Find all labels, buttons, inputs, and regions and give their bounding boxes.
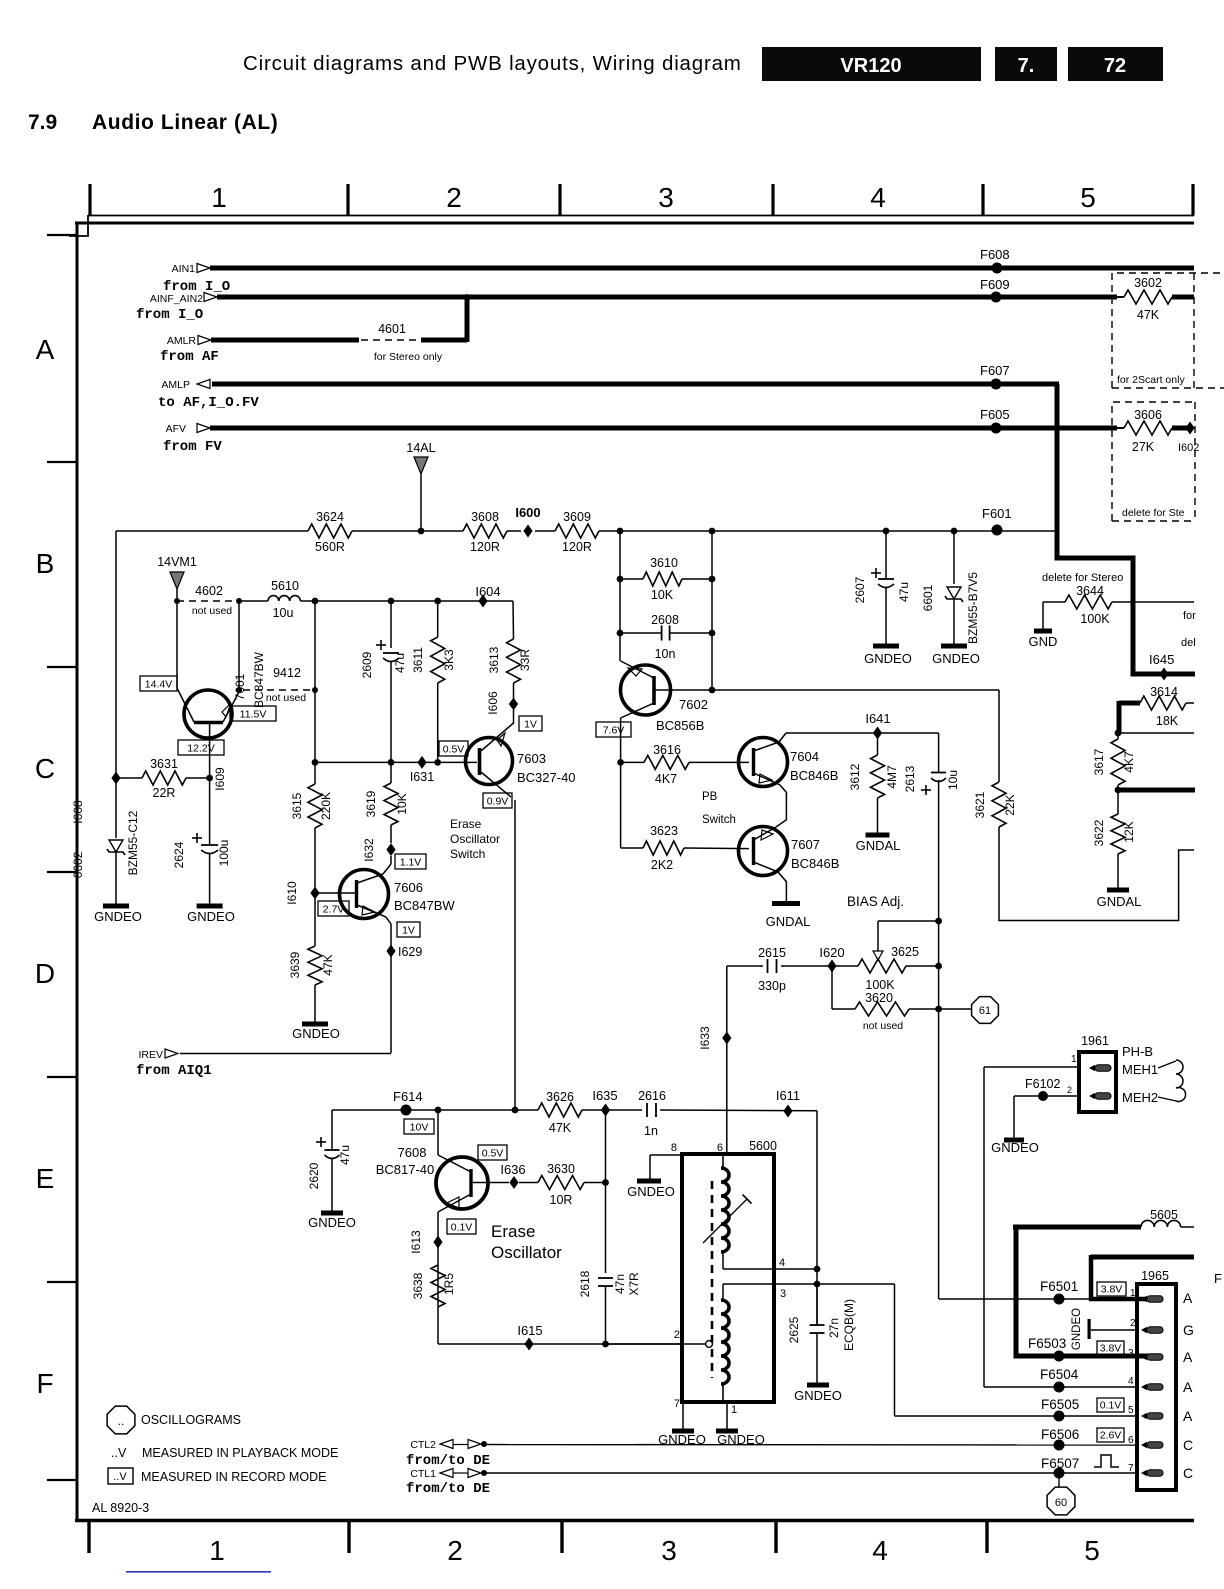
svg-text:3622: 3622 [1092,819,1106,846]
svg-text:2620: 2620 [307,1162,321,1189]
svg-text:3608: 3608 [471,510,499,524]
svg-text:7.9: 7.9 [28,111,57,134]
svg-text:3602: 3602 [1134,276,1162,290]
ground GNDEO (2620) [321,1211,343,1216]
oscillogram 61 [972,997,999,1024]
svg-text:14AL: 14AL [406,441,435,455]
wire thick 5605 bus to pin3 [1013,1225,1141,1230]
svg-text:OSCILLOGRAMS: OSCILLOGRAMS [141,1413,241,1427]
svg-text:from AIQ1: from AIQ1 [136,1063,212,1079]
junction 7602 column [617,528,624,535]
frame left border [76,223,79,1521]
resistor 3621 22K [992,782,1006,827]
voltage 0.1V (pin5) [1097,1398,1124,1412]
svg-text:27n: 27n [827,1318,841,1338]
svg-text:3609: 3609 [563,510,591,524]
svg-text:3615: 3615 [290,792,304,819]
svg-text:4K7: 4K7 [655,772,677,786]
transformer pin1 ground [726,1402,728,1429]
svg-text:3623: 3623 [650,824,678,838]
svg-text:0.5V: 0.5V [443,743,465,755]
svg-text:I641: I641 [865,711,890,726]
wire 7601 collector column [176,601,178,688]
node I609 [206,775,213,782]
wire 7603 base line [315,761,477,763]
transistor 7603 BC327-40 [466,738,513,785]
transistor 7608 BC817-40 [436,1157,488,1209]
svg-text:3610: 3610 [650,556,678,570]
svg-text:I629: I629 [398,945,422,959]
svg-text:I633: I633 [698,1026,712,1050]
svg-text:F6501: F6501 [1040,1279,1078,1294]
svg-text:F608: F608 [980,247,1010,262]
wire F6505 line [895,1415,1138,1417]
svg-text:61: 61 [979,1005,991,1017]
wire AMLR stereo link [421,338,467,343]
bottom ruler ticks [87,1521,90,1553]
svg-text:33R: 33R [518,649,532,671]
svg-text:3624: 3624 [316,510,344,524]
wire I633 column to transformer pin6 [726,966,728,1152]
junction 3617 top [1115,730,1122,737]
svg-text:A: A [1183,1408,1193,1424]
svg-text:from I_O: from I_O [136,307,203,323]
svg-text:14.4V: 14.4V [145,678,172,690]
svg-text:I606: I606 [486,691,500,715]
wire I615 line [438,1343,682,1345]
pulse symbol (pin7) [1094,1455,1119,1467]
svg-text:47K: 47K [1137,308,1160,322]
svg-text:F6503: F6503 [1028,1336,1066,1351]
svg-text:4: 4 [872,1535,888,1566]
port AIN1 arrow [197,264,210,273]
svg-text:I610: I610 [285,881,299,905]
svg-text:GNDEO: GNDEO [932,651,980,666]
legend record mode [108,1468,133,1484]
svg-text:from FV: from FV [163,439,222,455]
svg-text:1: 1 [731,1404,737,1416]
node I613 [433,1236,442,1249]
svg-text:for: for [1183,610,1196,622]
junction 3611 bottom [434,759,441,766]
svg-text:5600: 5600 [749,1139,777,1153]
voltage 0.9V (7603) [483,793,512,808]
capacitor 2613 10u electrolytic [938,733,940,772]
svg-text:4: 4 [870,182,886,213]
resistor 3615 220K [308,784,322,828]
connector 1961 pin2 [1089,1093,1095,1099]
svg-text:1R5: 1R5 [442,1273,456,1295]
transistor 7601 BC847BW [184,690,232,738]
svg-text:GNDEO: GNDEO [94,909,142,924]
svg-text:2624: 2624 [172,841,186,868]
svg-text:Switch: Switch [450,847,485,861]
svg-text:3611: 3611 [411,647,425,673]
svg-text:PH-B: PH-B [1122,1044,1153,1059]
svg-text:100K: 100K [865,978,895,992]
svg-text:I604: I604 [475,584,500,599]
wire I611 corner down to transformer pin4 [816,1111,818,1325]
wire 2609 column [390,601,392,648]
transformer primary winding [722,1156,724,1168]
voltage 0.1V (7608) [447,1219,476,1234]
wire I632 to 7606 collector [390,856,392,864]
svg-text:3.8V: 3.8V [1101,1283,1123,1295]
svg-text:2609: 2609 [360,651,374,678]
wire AIN1 bus [210,266,1194,271]
svg-text:G: G [1183,1322,1194,1338]
svg-text:10K: 10K [651,588,674,602]
junction 3610 left [617,576,624,583]
svg-text:..V: ..V [111,1446,127,1460]
svg-text:CTL1: CTL1 [410,1468,436,1480]
wire 7602 base to x712 [655,689,712,691]
resistor 3617 4K7 [1111,739,1125,785]
option box delete for Stereo (dashed) [1112,402,1195,521]
frame top border [75,222,1194,225]
svg-text:7608: 7608 [398,1145,427,1160]
svg-text:2608: 2608 [651,613,679,627]
wire supply rail y531 [116,530,308,532]
svg-text:I635: I635 [592,1088,617,1103]
svg-text:3617: 3617 [1092,748,1106,775]
ground GNDEO (3639) [302,1022,328,1027]
transistor 7602 BC856B [621,665,671,715]
junction 6601 column [951,528,958,535]
svg-text:1961: 1961 [1081,1034,1109,1048]
svg-text:100u: 100u [217,840,231,867]
node I602 [1185,422,1194,435]
svg-text:AMLP: AMLP [161,379,190,391]
coil 5610 10u [239,600,268,602]
svg-text:2615: 2615 [758,946,786,960]
svg-text:330p: 330p [758,979,786,993]
svg-text:A: A [1183,1379,1193,1395]
svg-text:C: C [35,753,55,784]
svg-text:I631: I631 [410,770,434,784]
svg-text:2: 2 [674,1329,680,1341]
voltage 1V (7606) [397,922,420,937]
svg-text:BC846B: BC846B [790,768,838,783]
wire 7601 base column [209,722,211,844]
resistor 3612 4M7 [877,739,879,755]
voltage 1.1V [395,854,426,869]
wire 7604 collector to I641 [779,733,786,742]
svg-text:4602: 4602 [195,584,223,598]
svg-text:10u: 10u [273,606,294,620]
svg-text:4M7: 4M7 [885,765,899,789]
svg-text:3639: 3639 [288,951,302,978]
ground GNDEO (2607) [873,644,899,649]
svg-text:not used: not used [863,1020,903,1032]
svg-text:2616: 2616 [638,1089,666,1103]
svg-text:not used: not used [266,692,306,704]
ground GND (3644) [1042,602,1044,629]
svg-text:60: 60 [1055,1497,1067,1509]
svg-text:3613: 3613 [487,646,501,673]
erase head coil [1176,1060,1186,1102]
svg-text:22R: 22R [153,786,176,800]
svg-text:BZM55-C12: BZM55-C12 [126,810,140,875]
wire thick y790 [1118,788,1195,793]
svg-text:1965: 1965 [1141,1269,1169,1283]
wire left loop column [115,531,117,838]
blue underline mark [126,1571,271,1573]
svg-text:GNDAL: GNDAL [766,914,811,929]
wire 3614 left thick link [1119,701,1140,706]
wire 7608 base to I636 [471,1182,509,1184]
zener 6602 BZM55-C12 [109,840,123,852]
svg-text:72: 72 [1104,55,1126,77]
junction 3611 top [434,598,441,605]
svg-text:12.2V: 12.2V [187,742,214,754]
wire 7606 emitter down [386,917,391,924]
svg-text:MEH1: MEH1 [1122,1062,1158,1077]
wire pin3 line [774,1283,895,1285]
wire AMLP bus vertical [1055,384,1060,558]
svg-text:1: 1 [1071,1054,1077,1065]
svg-text:10V: 10V [410,1121,429,1133]
voltage 2.6V (pin6) [1097,1428,1124,1442]
node I631 [417,756,426,769]
svg-text:Erase: Erase [491,1222,535,1241]
svg-text:8: 8 [671,1142,677,1154]
svg-text:E: E [36,1163,55,1194]
wire 7606 base [315,892,356,894]
wire 7604 emitter to 7607 collector [776,785,786,827]
node I608 [111,772,120,785]
capacitor 2609 47u electrolytic [376,644,386,646]
svg-text:F: F [1214,1271,1222,1286]
svg-text:5: 5 [1128,1405,1134,1416]
svg-text:I615: I615 [517,1323,542,1338]
junction 3616 [617,759,624,766]
svg-text:not used: not used [192,605,232,617]
svg-text:I609: I609 [213,767,227,791]
wire y733 [1118,732,1194,734]
svg-text:Oscillator: Oscillator [450,832,500,846]
svg-text:ECQB(M): ECQB(M) [842,1299,856,1351]
voltage 7.6V [596,722,631,737]
legend oscillogram octagon [107,1406,135,1434]
capacitor 2607 47u electrolytic [885,531,887,578]
wire F6504 line [984,1386,1137,1388]
svg-text:F6504: F6504 [1040,1367,1079,1382]
svg-text:F601: F601 [982,506,1012,521]
svg-text:7607: 7607 [791,837,820,852]
svg-text:BC847BW: BC847BW [252,651,266,708]
wire AFV bus [210,426,1117,431]
svg-text:2607: 2607 [853,576,867,603]
svg-text:7: 7 [674,1398,680,1410]
svg-text:220K: 220K [319,792,333,820]
junction base line 3615 [312,759,319,766]
svg-text:10u: 10u [946,770,960,790]
ruler left step [69,215,88,236]
svg-text:10n: 10n [655,647,676,661]
svg-text:I600: I600 [515,505,540,520]
svg-text:I645: I645 [1149,652,1174,667]
svg-text:Audio Linear (AL): Audio Linear (AL) [92,111,278,134]
ground GNDEO (2624) [197,904,223,909]
transformer secondary winding [721,1300,729,1384]
svg-text:I602: I602 [1178,442,1199,454]
svg-text:47u: 47u [338,1145,352,1165]
junction erase switch feed [512,1107,519,1114]
svg-text:18K: 18K [1156,714,1179,728]
svg-text:11.5V: 11.5V [240,708,267,720]
svg-text:560R: 560R [315,540,345,554]
wire 3615 column [314,601,316,784]
svg-text:1: 1 [211,182,227,213]
svg-text:2: 2 [446,182,462,213]
svg-text:GNDEO: GNDEO [292,1026,340,1041]
voltage 3.8V (pin1) [1097,1282,1126,1296]
voltage 0.5V (7603) [439,741,468,756]
svg-text:5: 5 [1084,1535,1100,1566]
svg-text:from/to DE: from/to DE [406,1481,490,1497]
svg-text:for 2Scart only: for 2Scart only [1117,374,1185,386]
svg-text:2.7V: 2.7V [323,903,345,915]
wire IREV line [180,1053,391,1055]
resistor 3622 12K [1117,790,1119,814]
svg-text:6602: 6602 [71,851,85,878]
wire F6501 line [939,1298,1091,1300]
svg-text:B: B [36,548,55,579]
junction 7608 collector [435,1107,442,1114]
svg-text:7601: 7601 [233,673,247,700]
resistor 3619 10K [384,783,398,825]
svg-text:12K: 12K [1122,821,1136,842]
wire thick pin1 feed [1091,1255,1194,1260]
header: model box VR120 [762,47,981,81]
junction 3625 right [935,963,942,970]
top ruler ticks [88,184,91,216]
wire 3602 to edge [1172,295,1194,300]
wire CTL2 line [484,1444,1137,1447]
svg-text:1.1V: 1.1V [400,856,422,868]
junction 7601 emitter [236,687,242,693]
svg-text:3612: 3612 [848,763,862,790]
wire AMLR [211,338,359,343]
svg-text:3630: 3630 [547,1162,575,1176]
svg-text:PB: PB [702,791,718,803]
wire 3621 loop lower [999,827,1194,921]
svg-text:Circuit diagrams and PWB layou: Circuit diagrams and PWB layouts, Wiring… [243,52,742,75]
transformer core dashed line [711,1181,714,1378]
svg-text:X7R: X7R [627,1272,641,1296]
junction octagon 61 wire [935,1006,942,1013]
voltage 0.5V (7608) [478,1145,507,1160]
node junction 14AL [418,528,425,535]
svg-text:0.9V: 0.9V [487,795,509,807]
wire AMLP bus [212,382,1059,387]
junction 7602 base [709,687,716,694]
svg-text:del: del [1181,637,1196,649]
svg-text:7603: 7603 [517,751,546,766]
svg-text:GNDEO: GNDEO [991,1140,1039,1155]
svg-text:5: 5 [1080,182,1096,213]
svg-text:0.5V: 0.5V [482,1147,504,1159]
svg-text:A: A [1183,1290,1193,1306]
svg-text:3631: 3631 [150,757,178,771]
svg-text:AINF_AIN2: AINF_AIN2 [150,293,203,305]
svg-text:3616: 3616 [653,743,681,757]
wire 1961 to F6504 column [983,1067,985,1387]
wire 1961 pin1 [984,1066,1079,1068]
svg-text:GNDEO: GNDEO [308,1215,356,1230]
voltage 12.2V [178,740,224,755]
voltage 11.5V [230,706,276,721]
svg-text:3K3: 3K3 [442,649,456,671]
svg-text:1V: 1V [524,718,537,730]
svg-text:3: 3 [661,1535,677,1566]
svg-text:4: 4 [1128,1376,1134,1387]
ground GNDEO (2625) [807,1383,829,1388]
junction 3615 top [312,598,319,605]
ground GNDEO (6602) [103,904,129,909]
svg-text:AIN1: AIN1 [172,263,196,275]
svg-text:I620: I620 [819,945,844,960]
svg-text:GNDEO: GNDEO [1071,1308,1083,1350]
wire I620 line [727,965,763,967]
connector 1961 pin1 [1089,1065,1095,1071]
svg-text:10K: 10K [395,793,409,814]
wire BIAS column corner [938,1298,940,1300]
header: page box 72 [1068,47,1163,81]
svg-text:BC847BW: BC847BW [394,898,455,913]
oscillogram 60 [1058,1473,1060,1487]
resistor 3639 47K [314,893,316,946]
svg-text:F6505: F6505 [1041,1397,1079,1412]
frame bottom border [75,1519,1194,1523]
svg-text:F6102: F6102 [1025,1077,1060,1091]
node I606 [509,698,518,711]
wire 7607 emitter to GNDAL [778,872,786,902]
svg-text:2: 2 [1067,1085,1072,1095]
svg-text:A: A [36,334,55,365]
svg-text:2: 2 [1130,1318,1136,1329]
svg-text:3: 3 [658,182,674,213]
trimmer 3625 100K wiper arrow [877,921,879,951]
svg-text:GNDEO: GNDEO [864,651,912,666]
wire 7602 collector column [620,718,622,848]
svg-text:A: A [1183,1349,1193,1365]
node I633 [722,1032,731,1045]
svg-text:47u: 47u [897,582,911,602]
connector 1961 body [1079,1052,1116,1112]
svg-text:Switch: Switch [702,814,736,826]
svg-text:120R: 120R [470,540,500,554]
capacitor 2620 47u electrolytic [331,1110,333,1149]
port AMLP arrow [197,380,210,389]
wire 7608 emitter column [437,1212,439,1344]
node I610 [310,887,319,900]
svg-text:3621: 3621 [973,791,987,818]
voltage 14.4V [140,676,177,691]
svg-text:2625: 2625 [787,1316,801,1343]
svg-text:..: .. [118,1414,125,1428]
svg-text:3606: 3606 [1134,408,1162,422]
svg-text:delete for Stereo: delete for Stereo [1042,572,1123,584]
svg-text:47K: 47K [321,954,335,975]
wire 3606 out [1172,426,1188,431]
port AMLR arrow [198,336,211,345]
svg-text:6601: 6601 [921,584,935,611]
wire pin3 loop down to F6505 [894,1284,896,1416]
svg-text:3626: 3626 [546,1090,574,1104]
wire CTL1 line [484,1472,1137,1474]
